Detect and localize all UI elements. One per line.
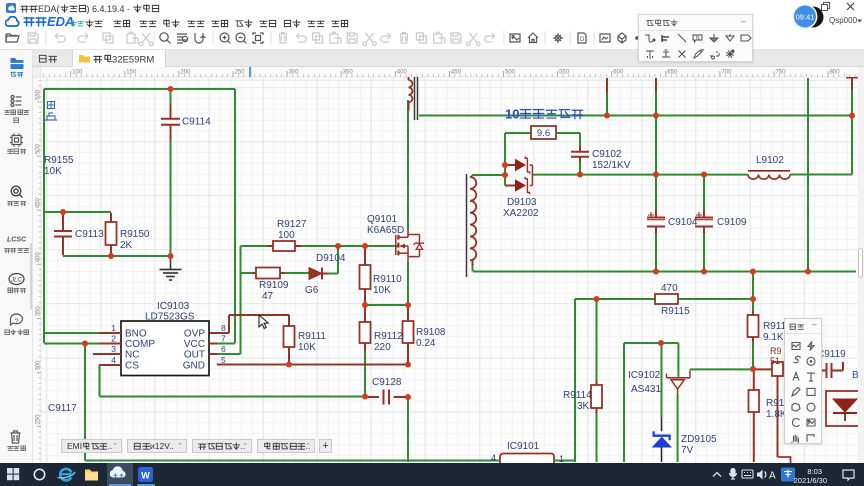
svg-text:C9113: C9113 — [75, 229, 104, 240]
svg-text:51: 51 — [770, 356, 780, 366]
svg-text:09:41: 09:41 — [796, 13, 815, 22]
svg-text:CS: CS — [125, 361, 139, 372]
svg-text:D9103: D9103 — [507, 197, 537, 208]
svg-text:47: 47 — [262, 291, 274, 302]
svg-text:VCC: VCC — [184, 339, 205, 350]
svg-text:9.1K: 9.1K — [763, 332, 784, 343]
svg-text:NC: NC — [125, 350, 139, 361]
svg-text:R9155: R9155 — [44, 155, 74, 166]
svg-text:W: W — [141, 471, 150, 481]
svg-text:OVP: OVP — [184, 329, 205, 340]
svg-text:2K: 2K — [120, 240, 133, 251]
svg-text:AS431: AS431 — [631, 384, 661, 395]
svg-text:C9117: C9117 — [48, 403, 77, 414]
svg-text:ZD9105: ZD9105 — [681, 434, 717, 445]
svg-text:8: 8 — [221, 323, 226, 333]
svg-text:G6: G6 — [305, 285, 319, 296]
svg-text:R9127: R9127 — [277, 219, 307, 230]
svg-text:5: 5 — [221, 355, 226, 365]
svg-text:COMP: COMP — [125, 339, 155, 350]
svg-text:A: A — [769, 471, 776, 482]
svg-text:3K: 3K — [577, 401, 590, 412]
svg-text:R9111: R9111 — [298, 331, 326, 342]
svg-text:3: 3 — [111, 344, 116, 354]
svg-text:C9114: C9114 — [182, 117, 211, 128]
svg-text:N: N — [696, 36, 700, 42]
svg-text:100: 100 — [278, 230, 295, 241]
svg-text:R9115: R9115 — [661, 306, 690, 317]
svg-text:XA2202: XA2202 — [503, 208, 539, 219]
svg-text:GND: GND — [183, 361, 205, 372]
svg-text:1: 1 — [111, 323, 116, 333]
svg-text:0.24: 0.24 — [416, 338, 436, 349]
svg-text:K6A65D: K6A65D — [367, 225, 404, 236]
svg-text:IC9101: IC9101 — [507, 441, 540, 452]
svg-text:7V: 7V — [681, 445, 694, 456]
svg-text:7: 7 — [221, 334, 226, 344]
svg-text:R9114: R9114 — [563, 390, 592, 401]
svg-text:470: 470 — [661, 283, 678, 294]
svg-text:R9109: R9109 — [259, 280, 289, 291]
svg-text:10K: 10K — [373, 285, 391, 296]
svg-text:Qsp000: Qsp000 — [829, 16, 858, 25]
svg-text:6: 6 — [221, 344, 226, 354]
svg-text:2: 2 — [111, 334, 116, 344]
svg-text:C9102: C9102 — [592, 149, 622, 160]
svg-text:OUT: OUT — [184, 350, 205, 361]
svg-text:IC9103: IC9103 — [157, 301, 190, 312]
svg-text:8:03: 8:03 — [807, 467, 822, 476]
svg-text:D: D — [580, 37, 585, 43]
svg-text:9.6: 9.6 — [537, 128, 550, 139]
svg-text:LD7523GS: LD7523GS — [145, 312, 195, 323]
svg-text:4: 4 — [491, 453, 496, 463]
svg-text:C9128: C9128 — [372, 377, 402, 388]
svg-text:R9112: R9112 — [374, 331, 403, 342]
svg-text:L9102: L9102 — [756, 155, 784, 166]
svg-text:D9104: D9104 — [316, 253, 346, 264]
svg-text:C9109: C9109 — [717, 217, 747, 228]
svg-text:Q9101: Q9101 — [367, 214, 397, 225]
svg-text:R9110: R9110 — [373, 274, 402, 285]
svg-text:JLC: JLC — [10, 278, 22, 284]
svg-text:R9150: R9150 — [120, 229, 150, 240]
svg-text:10K: 10K — [44, 166, 62, 177]
svg-text:IC9102: IC9102 — [628, 370, 661, 381]
svg-text:?: ? — [15, 319, 19, 326]
svg-text:2021/6/30: 2021/6/30 — [794, 476, 827, 485]
svg-text:C9104: C9104 — [668, 217, 698, 228]
svg-text:10K: 10K — [298, 342, 316, 353]
svg-text:R9108: R9108 — [416, 327, 446, 338]
svg-text:4: 4 — [111, 355, 116, 365]
svg-text:BNO: BNO — [125, 329, 147, 340]
svg-text:LCSC: LCSC — [7, 237, 27, 244]
svg-text:220: 220 — [374, 342, 391, 353]
svg-text:152/1KV: 152/1KV — [592, 160, 631, 171]
svg-text:R9: R9 — [770, 346, 782, 356]
